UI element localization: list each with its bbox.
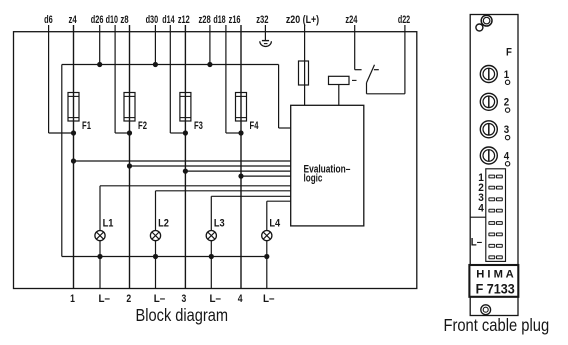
junction d26 / L- rail <box>97 62 102 67</box>
junction fuse 1 / logic rail <box>71 158 76 163</box>
svg-text:1: 1 <box>504 69 509 81</box>
wire z-input to fuse F3 <box>184 25 186 93</box>
L- distribution rail (top) <box>62 64 279 66</box>
svg-text:z20 (L+): z20 (L+) <box>286 14 319 26</box>
junction fuse 4 / logic rail <box>238 174 243 179</box>
junction lamp L2 / L- rail <box>153 254 158 259</box>
wire fuse 2 rail to evaluation logic <box>130 165 291 167</box>
fuse F2 <box>124 93 135 122</box>
LED indicator 3 <box>505 135 509 139</box>
terminal label d14 <box>162 14 174 26</box>
label plug terminal 3 <box>478 192 484 204</box>
outer block-diagram frame <box>14 32 417 289</box>
wire lamp L4 rail from evaluation logic <box>267 201 291 230</box>
wire d-input channel 2 <box>115 25 129 133</box>
wire z-input to fuse F1 <box>73 25 75 93</box>
label F2 <box>138 120 147 132</box>
terminal pin pair row 7 <box>489 244 502 247</box>
mechanical link dash <box>352 79 357 81</box>
fixing screw (bottom) <box>481 305 491 315</box>
junction lamp L4 / L- rail <box>264 254 269 259</box>
label terminal L- <box>154 293 166 305</box>
svg-text:L2: L2 <box>158 217 169 229</box>
wire fuse F2 output down to terminal 2 <box>129 121 131 289</box>
label fuse 4 <box>504 150 509 162</box>
label fuse 1 <box>504 69 509 81</box>
relay coil (fault signalling) <box>329 76 350 84</box>
wire z-input to fuse F4 <box>240 25 242 93</box>
label fuse 3 <box>504 124 509 136</box>
terminal label z4 <box>68 14 76 26</box>
terminal label d30 <box>146 14 159 26</box>
fixing screw (top) <box>476 15 492 31</box>
wire L- rail left leg down to lamp return rail <box>62 65 267 257</box>
svg-text:4: 4 <box>478 203 484 215</box>
lamp L2 <box>150 231 160 241</box>
terminal label z28 <box>198 14 210 26</box>
wire d-input channel 3 <box>170 25 185 133</box>
lamp L4 <box>262 231 272 241</box>
svg-text:z24: z24 <box>345 14 357 26</box>
label L2 <box>158 217 169 229</box>
LED indicator 1 <box>505 80 509 84</box>
terminal label z32 <box>256 14 268 26</box>
junction fuse 2 / d-input <box>127 130 132 135</box>
label plug terminal 2 <box>478 182 484 194</box>
svg-text:2: 2 <box>504 97 509 109</box>
terminal pin pair row 2 <box>489 186 502 189</box>
fuse holder F2 on plug <box>480 93 497 110</box>
label L3 <box>214 217 225 229</box>
wire fuse 1 rail to evaluation logic <box>74 160 291 162</box>
svg-text:d26: d26 <box>91 14 104 26</box>
terminal label z12 <box>178 14 190 26</box>
svg-text:Front cable plug: Front cable plug <box>443 315 549 335</box>
wire lamp L3 to L- terminal <box>210 241 212 289</box>
wire lamp L3 rail from evaluation logic <box>211 196 290 230</box>
label plug terminal L- <box>471 237 482 249</box>
svg-text:L1: L1 <box>103 217 114 229</box>
svg-text:2: 2 <box>126 293 131 305</box>
svg-text:z8: z8 <box>120 14 128 26</box>
svg-text:F 7133: F 7133 <box>476 282 515 297</box>
fuse on z20 (L+) line <box>299 61 309 85</box>
caption Block diagram <box>136 305 229 325</box>
HIMA type label box <box>469 265 518 297</box>
svg-text:H I M A: H I M A <box>476 269 514 281</box>
wire lamp L1 rail from evaluation logic <box>100 186 291 231</box>
LED indicator 2 <box>505 108 509 112</box>
label terminal L- <box>99 293 111 305</box>
label F3 <box>194 120 203 132</box>
svg-text:Block diagram: Block diagram <box>136 305 229 325</box>
terminal label d10 <box>106 14 118 26</box>
svg-text:F: F <box>506 47 512 59</box>
wire lamp L2 to L- terminal <box>155 241 157 289</box>
wire d-input channel 1 <box>49 25 74 133</box>
wire fuse F4 output down to terminal 4 <box>240 121 242 289</box>
lamp L1 <box>95 231 105 241</box>
svg-text:3: 3 <box>182 293 187 305</box>
terminal pin pair row 6 <box>489 233 502 236</box>
svg-text:z4: z4 <box>68 14 76 26</box>
svg-text:L–: L– <box>99 293 111 305</box>
separator line 1-4 / L- zone <box>470 216 486 218</box>
svg-text:z32: z32 <box>256 14 268 26</box>
wire z28 stub <box>209 25 211 65</box>
wire d30 stub <box>154 25 156 65</box>
wire L- rail right leg into evaluation logic <box>279 65 291 129</box>
terminal label z16 <box>229 14 241 26</box>
label terminal 3 <box>182 293 187 305</box>
fuse holder F4 on plug <box>480 147 497 164</box>
svg-text:d18: d18 <box>213 14 225 26</box>
wire lamp L1 to L- terminal <box>99 241 101 289</box>
fuse F4 <box>236 93 247 122</box>
svg-text:L–: L– <box>471 237 482 249</box>
svg-text:d6: d6 <box>44 14 53 26</box>
svg-text:d14: d14 <box>162 14 174 26</box>
svg-text:z12: z12 <box>178 14 190 26</box>
fuse holder F3 on plug <box>480 121 497 138</box>
svg-text:L–: L– <box>263 293 275 305</box>
svg-text:z28: z28 <box>198 14 210 26</box>
svg-text:3: 3 <box>504 124 509 136</box>
wire coil to evaluation logic <box>338 85 340 106</box>
wire lamp L2 rail from evaluation logic <box>156 191 291 231</box>
lamp L3 <box>206 231 216 241</box>
junction fuse 4 / d-input <box>238 130 243 135</box>
LED indicator 4 <box>505 162 509 166</box>
terminal block on plug <box>486 169 506 262</box>
wire z24 to contact <box>355 25 362 70</box>
svg-text:L4: L4 <box>269 217 280 229</box>
terminal label d22 <box>398 14 410 26</box>
terminal pin pair row 3 <box>489 198 502 201</box>
svg-text:F2: F2 <box>138 120 147 132</box>
svg-text:L–: L– <box>210 293 222 305</box>
junction fuse 3 / logic rail <box>183 169 188 174</box>
fuse F3 <box>180 93 191 122</box>
terminal label z8 <box>120 14 128 26</box>
terminal pin pair row 1 <box>489 175 502 178</box>
svg-text:z16: z16 <box>229 14 241 26</box>
label fuse 2 <box>504 97 509 109</box>
label L4 <box>269 217 280 229</box>
label F (fuse group) <box>506 47 512 59</box>
wire fuse 4 rail to evaluation logic <box>241 175 291 177</box>
terminal pin pair row 4 <box>489 209 502 212</box>
svg-text:logic: logic <box>304 172 323 184</box>
label terminal 2 <box>126 293 131 305</box>
junction fuse 3 / d-input <box>183 130 188 135</box>
svg-text:d10: d10 <box>106 14 118 26</box>
wire fuse F3 output down to terminal 3 <box>184 121 186 289</box>
relay contact (make contact) <box>367 65 379 83</box>
wire d26 stub <box>99 25 101 65</box>
svg-text:4: 4 <box>504 150 509 162</box>
terminal label d6 <box>44 14 53 26</box>
terminal pin pair row 8 <box>489 256 502 259</box>
svg-text:F4: F4 <box>250 120 259 132</box>
label terminal L- <box>263 293 275 305</box>
svg-text:4: 4 <box>238 293 243 305</box>
terminal label d18 <box>213 14 225 26</box>
label F4 <box>250 120 259 132</box>
shield ground symbol at z32 <box>260 41 272 47</box>
label F1 <box>82 120 91 132</box>
terminal label z24 <box>345 14 357 26</box>
fuse holder F1 on plug <box>480 66 497 83</box>
wire z32 to shield earth <box>264 25 266 41</box>
front cable plug body <box>470 15 518 316</box>
label terminal 4 <box>238 293 243 305</box>
terminal label z20 <box>286 14 319 26</box>
label terminal 1 <box>70 293 75 305</box>
svg-text:d30: d30 <box>146 14 159 26</box>
wire fuse 3 rail to evaluation logic <box>185 170 290 172</box>
wire contact to d22 <box>367 25 405 94</box>
junction fuse 1 / d-input <box>71 130 76 135</box>
label plug terminal 1 <box>478 172 484 184</box>
junction fuse 2 / logic rail <box>127 163 132 168</box>
evaluation logic U1 <box>291 105 364 226</box>
junction d30 / L- rail <box>153 62 158 67</box>
terminal label d26 <box>91 14 104 26</box>
junction lamp L1 / L- rail <box>97 254 102 259</box>
wire fuse F1 output down to terminal 1 <box>73 121 75 289</box>
svg-text:F3: F3 <box>194 120 203 132</box>
junction lamp L3 / L- rail <box>209 254 214 259</box>
fuse F1 <box>68 93 79 122</box>
label plug terminal 4 <box>478 203 484 215</box>
wire z20 (L+) supply <box>304 25 306 105</box>
svg-text:L3: L3 <box>214 217 225 229</box>
wire z-input to fuse F2 <box>129 25 131 93</box>
wire d-input channel 4 <box>226 25 241 133</box>
svg-text:L–: L– <box>154 293 166 305</box>
wire lamp L4 to L- terminal <box>266 241 268 289</box>
terminal pin pair row 5 <box>489 222 502 225</box>
label L1 <box>103 217 114 229</box>
caption Front cable plug <box>443 315 549 335</box>
svg-text:d22: d22 <box>398 14 410 26</box>
svg-text:F1: F1 <box>82 120 91 132</box>
label terminal L- <box>210 293 222 305</box>
junction z28 / L- rail <box>207 62 212 67</box>
svg-text:1: 1 <box>70 293 75 305</box>
